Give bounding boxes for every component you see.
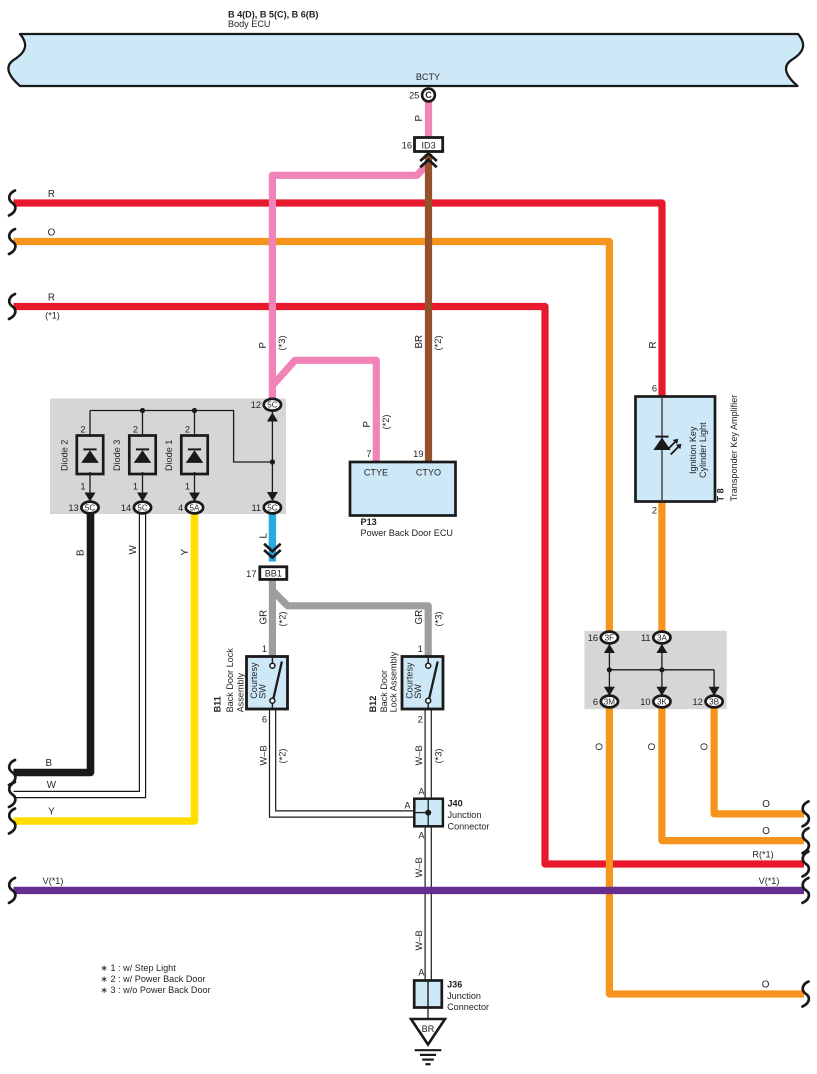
svg-text:Lock Assembly: Lock Assembly [389, 651, 399, 712]
svg-text:6: 6 [652, 384, 657, 394]
svg-text:1: 1 [133, 482, 138, 492]
svg-text:T 8: T 8 [716, 488, 726, 501]
svg-text:(*3): (*3) [434, 612, 444, 627]
svg-text:16: 16 [402, 141, 412, 151]
svg-text:Connector: Connector [448, 822, 490, 832]
svg-text:Assembly: Assembly [236, 673, 246, 713]
svg-text:W: W [47, 780, 57, 791]
svg-text:W: W [128, 545, 139, 555]
svg-text:R: R [48, 292, 55, 303]
svg-text:(*3): (*3) [434, 749, 444, 764]
svg-text:P: P [362, 421, 373, 428]
svg-text:11: 11 [641, 633, 651, 643]
svg-text:(*2): (*2) [278, 749, 288, 764]
svg-text:R(*1): R(*1) [752, 850, 773, 860]
svg-text:W–B: W–B [258, 745, 268, 765]
svg-text:3B: 3B [709, 697, 719, 706]
svg-text:B: B [76, 549, 87, 556]
svg-text:13: 13 [68, 503, 78, 513]
svg-text:Back Door: Back Door [379, 670, 389, 712]
svg-text:W–B: W–B [414, 857, 424, 877]
svg-text:P13: P13 [361, 517, 377, 527]
svg-text:V(*1): V(*1) [43, 876, 64, 886]
svg-text:5C: 5C [85, 503, 96, 512]
svg-text:BR: BR [422, 1024, 435, 1034]
svg-text:J36: J36 [447, 980, 462, 990]
svg-text:O: O [762, 799, 770, 810]
svg-text:5C: 5C [267, 401, 278, 410]
svg-text:GR: GR [414, 610, 425, 625]
svg-text:O: O [595, 743, 606, 751]
svg-text:Diode 3: Diode 3 [112, 440, 122, 471]
svg-text:Diode 1: Diode 1 [164, 440, 174, 471]
svg-text:B12: B12 [368, 696, 378, 713]
svg-text:25: 25 [409, 90, 419, 100]
svg-text:(*2): (*2) [381, 415, 391, 430]
svg-text:2: 2 [418, 715, 423, 725]
svg-text:∗ 1 : w/ Step Light: ∗ 1 : w/ Step Light [100, 963, 176, 973]
svg-text:C: C [425, 90, 432, 100]
svg-text:∗ 3 : w/o Power Back Door: ∗ 3 : w/o Power Back Door [100, 985, 210, 995]
svg-text:5C: 5C [267, 503, 278, 512]
svg-text:Connector: Connector [447, 1002, 489, 1012]
svg-text:(*2): (*2) [278, 612, 288, 627]
svg-text:Back Door Lock: Back Door Lock [225, 648, 235, 713]
svg-text:A: A [418, 831, 425, 841]
svg-text:Y: Y [180, 549, 191, 556]
svg-text:Body ECU: Body ECU [228, 19, 270, 29]
svg-text:W–B: W–B [414, 930, 424, 950]
svg-text:L: L [258, 533, 269, 539]
svg-text:2: 2 [133, 424, 138, 434]
svg-text:BB1: BB1 [265, 569, 282, 579]
svg-text:12: 12 [692, 697, 702, 707]
svg-text:16: 16 [588, 633, 598, 643]
svg-text:Cylinder Light: Cylinder Light [698, 422, 708, 478]
svg-text:3A: 3A [657, 633, 668, 642]
svg-text:ID3: ID3 [422, 140, 436, 150]
svg-text:(*2): (*2) [433, 336, 443, 351]
svg-text:SW: SW [413, 684, 423, 699]
svg-text:1: 1 [262, 644, 267, 654]
svg-text:O: O [647, 743, 658, 751]
svg-text:O: O [762, 826, 770, 837]
svg-text:2: 2 [80, 424, 85, 434]
svg-text:Ignition Key: Ignition Key [688, 426, 698, 474]
svg-text:BR: BR [414, 335, 425, 349]
svg-text:SW: SW [257, 684, 267, 699]
svg-text:11: 11 [251, 503, 261, 513]
svg-text:3K: 3K [657, 697, 668, 706]
svg-text:R: R [48, 189, 55, 200]
svg-text:19: 19 [413, 449, 423, 459]
svg-text:7: 7 [366, 449, 371, 459]
svg-text:6: 6 [593, 697, 598, 707]
svg-text:12: 12 [251, 400, 261, 410]
svg-text:(*1): (*1) [45, 310, 60, 320]
svg-text:A: A [404, 801, 411, 811]
svg-text:B: B [46, 758, 53, 769]
svg-text:2: 2 [652, 506, 657, 516]
svg-text:V(*1): V(*1) [759, 876, 780, 886]
svg-text:BCTY: BCTY [416, 72, 440, 82]
svg-text:Junction: Junction [448, 810, 482, 820]
svg-text:W–B: W–B [414, 745, 424, 765]
svg-text:R: R [648, 341, 659, 348]
svg-text:5C: 5C [137, 503, 148, 512]
svg-text:2: 2 [185, 424, 190, 434]
svg-text:1: 1 [418, 644, 423, 654]
svg-text:3M: 3M [604, 697, 616, 706]
svg-text:Transponder Key Amplifier: Transponder Key Amplifier [729, 395, 739, 502]
svg-text:10: 10 [640, 697, 650, 707]
svg-text:1: 1 [185, 482, 190, 492]
svg-text:GR: GR [258, 610, 269, 625]
svg-text:CTYO: CTYO [416, 468, 441, 478]
svg-text:O: O [48, 227, 56, 238]
svg-text:P: P [414, 115, 425, 122]
svg-text:A: A [418, 787, 425, 797]
svg-text:Power Back Door ECU: Power Back Door ECU [361, 528, 453, 538]
svg-text:6: 6 [262, 715, 267, 725]
svg-text:(*3): (*3) [277, 336, 287, 351]
svg-text:O: O [699, 743, 710, 751]
svg-text:Junction: Junction [447, 991, 481, 1001]
svg-text:1: 1 [80, 482, 85, 492]
svg-text:Diode 2: Diode 2 [60, 440, 70, 471]
svg-text:O: O [762, 980, 770, 991]
svg-text:5A: 5A [190, 503, 201, 512]
svg-text:∗ 2 : w/ Power Back Door: ∗ 2 : w/ Power Back Door [100, 974, 205, 984]
svg-text:14: 14 [121, 503, 131, 513]
svg-text:A: A [418, 968, 425, 978]
svg-text:Y: Y [48, 806, 55, 817]
svg-text:4: 4 [178, 503, 183, 513]
svg-text:17: 17 [246, 569, 256, 579]
svg-text:B11: B11 [213, 696, 223, 712]
svg-text:J40: J40 [448, 799, 463, 809]
svg-text:CTYE: CTYE [364, 468, 388, 478]
svg-text:B 4(D), B 5(C), B 6(B): B 4(D), B 5(C), B 6(B) [228, 10, 318, 20]
svg-text:P: P [258, 342, 269, 349]
svg-text:3F: 3F [605, 633, 615, 642]
